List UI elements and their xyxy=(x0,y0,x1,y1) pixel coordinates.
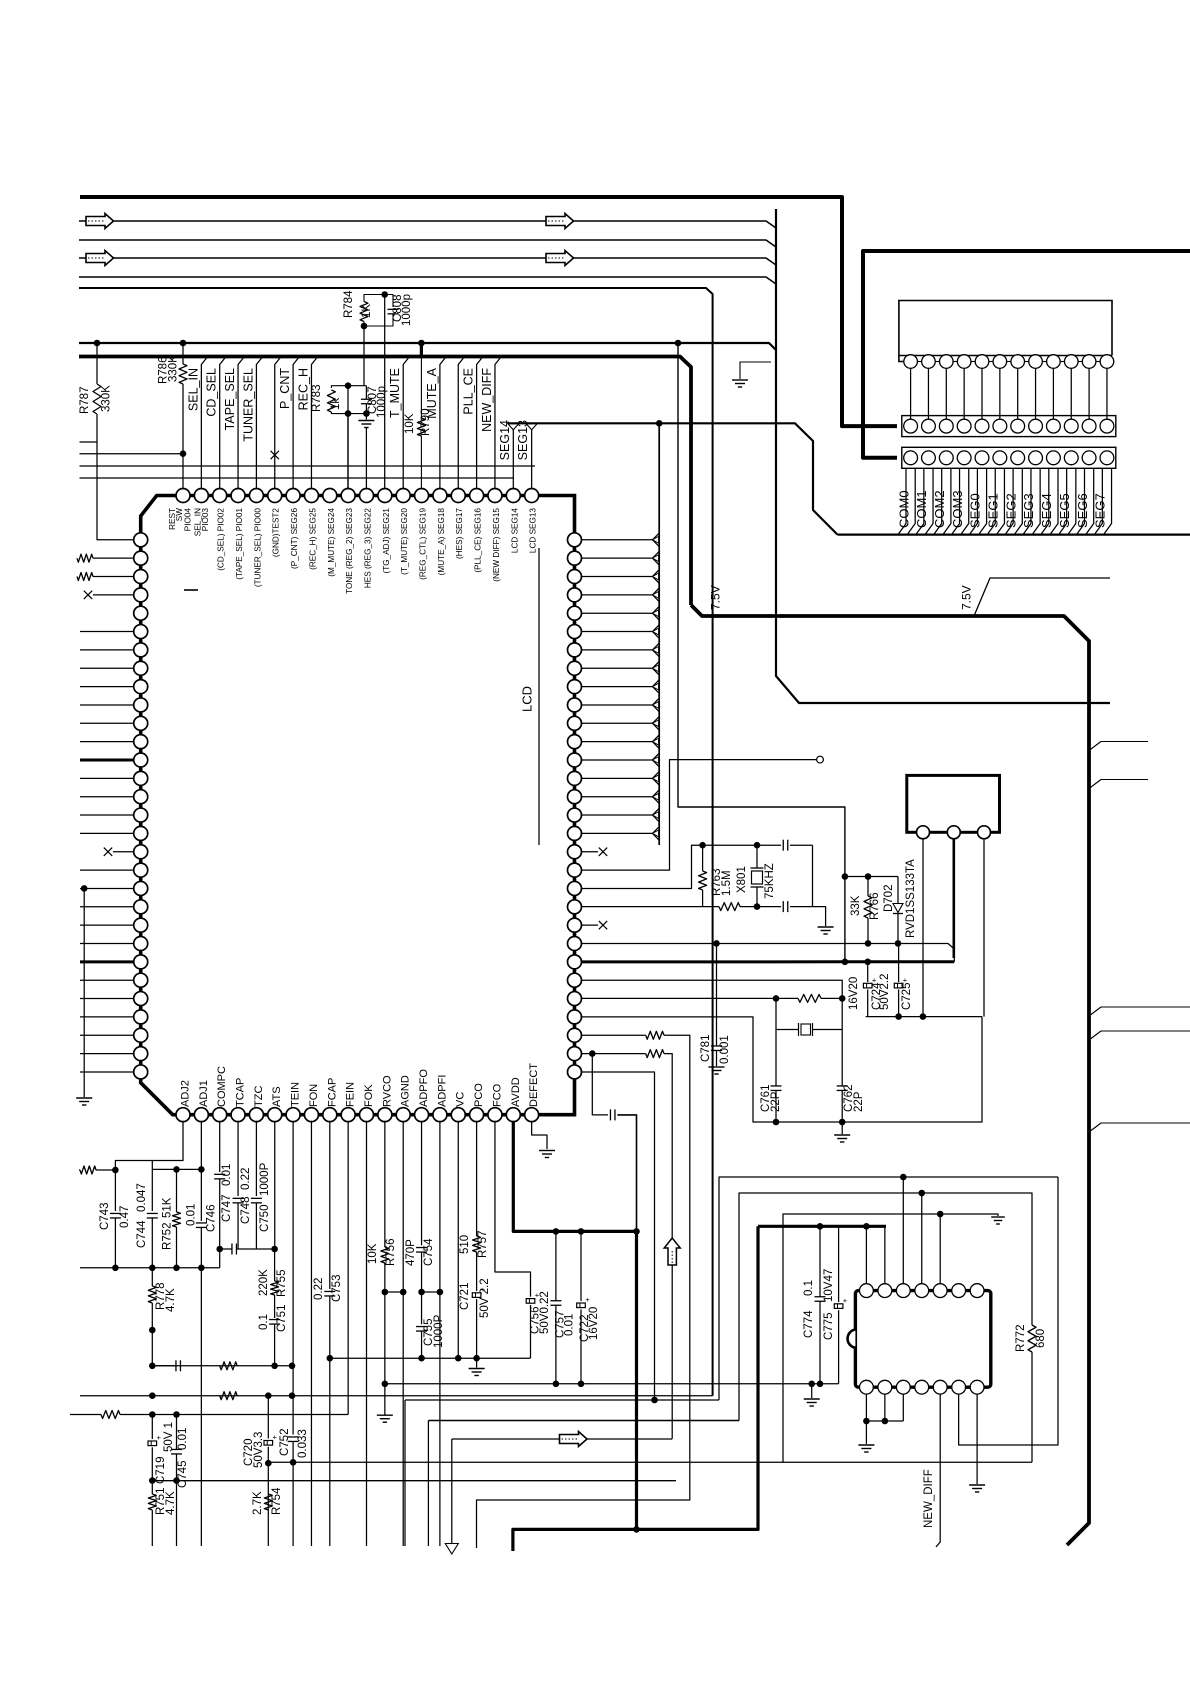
up arrow on x672.2 xyxy=(664,1238,680,1265)
DIP pin wires up xyxy=(865,1226,867,1284)
svg-text:SEG0: SEG0 xyxy=(968,493,983,528)
svg-text:0.01: 0.01 xyxy=(221,1164,233,1186)
svg-text:+: + xyxy=(157,1433,162,1442)
svg-text:R783: R783 xyxy=(311,385,323,413)
svg-text:50V0.22: 50V0.22 xyxy=(539,1291,551,1334)
capacitor C725 xyxy=(898,943,900,982)
svg-text:COMPC: COMPC xyxy=(216,1066,228,1107)
wire ADPFI full xyxy=(439,1121,441,1546)
svg-text:C746: C746 xyxy=(206,1205,218,1233)
LCD bracket line xyxy=(538,548,540,845)
vertical bus x776 xyxy=(776,209,1110,703)
svg-text:1.5M: 1.5M xyxy=(721,870,733,896)
rail 1365.8 xyxy=(152,1365,292,1367)
svg-text:ADJ1: ADJ1 xyxy=(198,1080,210,1107)
svg-text:51K: 51K xyxy=(162,1197,174,1218)
svg-text:4.7K: 4.7K xyxy=(165,1288,177,1312)
resistor R787 330K xyxy=(94,340,101,347)
svg-text:0.033: 0.033 xyxy=(297,1429,309,1458)
svg-text:680: 680 xyxy=(1035,1329,1047,1348)
svg-text:DEFECT: DEFECT xyxy=(528,1063,540,1107)
wire FOK full xyxy=(366,1121,368,1546)
svg-text:10K: 10K xyxy=(404,413,416,434)
wire TEIN with C752 xyxy=(292,1121,294,1435)
comparator IC body xyxy=(855,1291,990,1388)
bus wire 4 xyxy=(79,277,776,284)
SEG13/14 wire to LCD connector xyxy=(508,423,838,534)
svg-text:PLL_CE: PLL_CE xyxy=(462,368,476,415)
svg-text:(HES) SEG17: (HES) SEG17 xyxy=(455,508,464,559)
T_MUTE flag walls xyxy=(403,357,409,490)
capacitor C807 xyxy=(365,386,367,399)
LCD glass box xyxy=(899,301,1112,362)
resistor R783 1k xyxy=(331,386,366,388)
capacitor C756 wire from FCO xyxy=(495,1121,531,1297)
svg-text:(T_MUTE) SEG20: (T_MUTE) SEG20 xyxy=(400,508,409,575)
svg-text:C750: C750 xyxy=(259,1205,271,1233)
svg-text:HES (REG_3) SEG22: HES (REG_3) SEG22 xyxy=(363,508,372,589)
rail 1420 xyxy=(428,1420,739,1422)
svg-text:T_MUTE: T_MUTE xyxy=(388,368,402,418)
svg-text:NEW_DIFF: NEW_DIFF xyxy=(480,368,494,432)
svg-text:SEL_IN: SEL_IN xyxy=(186,368,200,411)
capacitor C722 xyxy=(580,1231,582,1301)
X no-connect left pin18 xyxy=(104,848,112,856)
wire COMPC with C747 xyxy=(219,1121,221,1172)
LCD label channel base line xyxy=(838,533,1190,535)
svg-text:R755: R755 xyxy=(276,1270,288,1298)
rail 1358.2 xyxy=(330,1357,531,1359)
svg-text:C751: C751 xyxy=(276,1305,288,1333)
right pin stubs with bus triangles xyxy=(581,539,653,541)
osc2 ground xyxy=(841,1122,843,1134)
svg-text:50V2.2: 50V2.2 xyxy=(879,974,891,1010)
end triangle xyxy=(445,1544,458,1555)
svg-text:SEG4: SEG4 xyxy=(1039,493,1054,528)
capacitor C719 xyxy=(151,1415,153,1440)
resistor R766 33K xyxy=(867,877,869,897)
osc right link and ground xyxy=(812,845,814,906)
svg-text:C754: C754 xyxy=(423,1238,435,1266)
svg-text:0.01: 0.01 xyxy=(564,1314,576,1336)
rail 1462 xyxy=(268,1461,1032,1463)
capacitor C761 xyxy=(775,998,777,1086)
resistor R755 220K xyxy=(274,1249,276,1281)
svg-text:COM1: COM1 xyxy=(914,490,929,528)
svg-text:C774: C774 xyxy=(803,1310,815,1338)
LCD segment bus vertical xyxy=(658,423,660,845)
svg-text:RVD1SS133TA: RVD1SS133TA xyxy=(905,859,917,938)
left pin stubs with resistors (pins 2,3) xyxy=(77,554,93,562)
rail 1483 xyxy=(152,1480,676,1482)
link 1249 with series cap xyxy=(220,1248,232,1250)
svg-text:1000p: 1000p xyxy=(376,386,388,418)
svg-text:ADPFO: ADPFO xyxy=(418,1069,430,1107)
svg-text:PIO03: PIO03 xyxy=(201,508,210,532)
wire pin30 down to 1400 rail xyxy=(581,1072,655,1400)
rail 1395.7 xyxy=(80,1395,713,1397)
svg-text:C744: C744 xyxy=(136,1220,148,1248)
svg-text:R757: R757 xyxy=(477,1231,489,1259)
thick rail 1226 xyxy=(758,1225,886,1228)
resistor R786 330K xyxy=(180,340,187,347)
cap bottom rail xyxy=(866,1016,982,1018)
svg-text:FEIN: FEIN xyxy=(345,1082,357,1107)
svg-text:TZC: TZC xyxy=(253,1086,265,1107)
svg-text:TAPE_SEL: TAPE_SEL xyxy=(223,368,237,430)
svg-text:SEG3: SEG3 xyxy=(1021,493,1036,528)
svg-text:0.47: 0.47 xyxy=(119,1206,131,1228)
svg-text:7.5V: 7.5V xyxy=(959,585,973,610)
thick power rail A (top) xyxy=(80,197,897,426)
left entry resistor xyxy=(79,1169,80,1171)
svg-text:+: + xyxy=(843,1296,848,1305)
svg-text:10K: 10K xyxy=(367,1243,379,1264)
rail 1384 xyxy=(385,1383,839,1385)
connector row 2 xyxy=(902,447,1116,468)
svg-text:P_CNT: P_CNT xyxy=(278,368,292,409)
svg-text:(TAPE_SEL) PIO01: (TAPE_SEL) PIO01 xyxy=(235,508,244,580)
wire pin29 with resistor, down to arrow rail xyxy=(581,1053,646,1055)
svg-text:D702: D702 xyxy=(883,885,895,913)
wire TZC with C750 xyxy=(255,1121,257,1196)
svg-text:C745: C745 xyxy=(177,1461,189,1489)
svg-text:1k: 1k xyxy=(330,398,342,410)
svg-text:(NEW DIFF) SEG15: (NEW DIFF) SEG15 xyxy=(492,508,501,582)
svg-text:0.1: 0.1 xyxy=(258,1314,270,1330)
ground branch from left pin20 xyxy=(81,885,88,892)
right edge branch stubs xyxy=(1089,742,1148,751)
svg-text:C748: C748 xyxy=(240,1197,252,1225)
sub rail 1169 xyxy=(151,1161,153,1170)
svg-text:PIO04: PIO04 xyxy=(183,508,192,532)
7.5V rail (thick) xyxy=(79,357,691,606)
LCD glass to connector wires xyxy=(910,368,912,419)
bus wire 2 xyxy=(79,240,776,247)
X no-connect left pin4 xyxy=(84,591,92,599)
rail 1267.8 xyxy=(80,1267,220,1269)
capacitor C744 xyxy=(151,1169,153,1211)
svg-text:ADPFI: ADPFI xyxy=(436,1075,448,1107)
svg-text:50V 1: 50V 1 xyxy=(163,1422,175,1452)
svg-text:1000P: 1000P xyxy=(259,1162,271,1196)
thick vertical x636 xyxy=(635,1231,638,1529)
wire SEL_IN left xyxy=(80,453,184,455)
node R784/C808 xyxy=(381,291,388,298)
svg-text:COM3: COM3 xyxy=(950,490,965,528)
svg-text:0.22: 0.22 xyxy=(313,1278,325,1300)
svg-text:ADJ2: ADJ2 xyxy=(179,1080,191,1107)
thick power rail B xyxy=(863,251,1190,458)
wire ADJ2 jog left xyxy=(115,1121,183,1170)
svg-text:FOK: FOK xyxy=(363,1084,375,1107)
wire FCAP with C753 xyxy=(329,1121,331,1289)
capacitor C751 xyxy=(269,1319,280,1321)
IC bottom pins (ADJ2..DEFECT) xyxy=(176,1108,190,1122)
svg-text:(PLL_CE) SEG16: (PLL_CE) SEG16 xyxy=(474,508,483,573)
svg-text:SEG5: SEG5 xyxy=(1057,493,1072,528)
crystal X801 75KHZ xyxy=(756,845,758,868)
svg-text:(TG_ADJ) SEG21: (TG_ADJ) SEG21 xyxy=(382,508,391,574)
svg-text:R766: R766 xyxy=(869,893,881,921)
wire AGND full xyxy=(402,1121,404,1546)
wire ATS down xyxy=(274,1121,276,1249)
wire pin23 line 943 xyxy=(581,944,955,962)
svg-text:RVCO: RVCO xyxy=(381,1075,393,1107)
thick analog rail from pin24 xyxy=(581,960,845,963)
rail 1384 ground xyxy=(811,1384,813,1398)
signal flag channels from 7.5V rail xyxy=(201,357,207,490)
capacitor C745 xyxy=(176,1415,178,1450)
MCU IC body (100-pin QFP) xyxy=(141,496,575,1115)
svg-text:VC: VC xyxy=(455,1092,467,1107)
svg-text:1000P: 1000P xyxy=(433,1314,445,1348)
X stub right pin22 xyxy=(581,924,598,926)
bus wire 3 with flow arrows xyxy=(79,258,776,265)
svg-text:+: + xyxy=(273,1433,278,1442)
svg-text:+: + xyxy=(585,1295,590,1304)
wire x678 down to thick rail xyxy=(675,340,682,347)
svg-text:SEG6: SEG6 xyxy=(1075,493,1090,528)
svg-text:X801: X801 xyxy=(736,866,748,893)
svg-text:C781: C781 xyxy=(700,1035,712,1063)
svg-text:10V47: 10V47 xyxy=(823,1269,835,1302)
svg-text:FCO: FCO xyxy=(491,1083,503,1107)
cap on 592 branch xyxy=(592,1054,608,1115)
svg-text:C743: C743 xyxy=(99,1203,111,1231)
pin 1 index mark xyxy=(184,589,198,591)
svg-text:4.7K: 4.7K xyxy=(165,1491,177,1515)
svg-text:REC_H: REC_H xyxy=(296,368,310,410)
capacitor C746 xyxy=(200,1169,202,1221)
capacitor C743 xyxy=(114,1170,116,1211)
svg-text:COM0: COM0 xyxy=(896,490,911,528)
IC left pins xyxy=(134,533,148,547)
ground near bus xyxy=(740,362,771,379)
svg-text:R772: R772 xyxy=(1015,1325,1027,1353)
resistor R784 xyxy=(364,295,385,302)
wire FEIN xyxy=(347,1121,349,1415)
svg-text:0.1: 0.1 xyxy=(803,1280,815,1296)
wire TCAP with C748 xyxy=(237,1121,239,1196)
wire pin28 with resistor, down to 1500 rail xyxy=(581,1034,646,1036)
resistor R772 680 xyxy=(1028,1325,1036,1352)
capacitor C781 xyxy=(716,943,718,1046)
svg-text:C747: C747 xyxy=(221,1195,233,1223)
svg-text:330K: 330K xyxy=(101,385,113,412)
wire FON full xyxy=(310,1121,312,1546)
svg-text:SEG2: SEG2 xyxy=(1003,493,1018,528)
thick bottom rail 1529 xyxy=(513,1226,758,1551)
capacitor C721 xyxy=(472,1293,481,1298)
R756 link to AGND line xyxy=(385,1291,403,1293)
wire R784 bottom down xyxy=(363,326,365,386)
svg-text:R756: R756 xyxy=(385,1239,397,1267)
svg-text:(REC_H) SEG25: (REC_H) SEG25 xyxy=(308,508,317,570)
svg-text:AGND: AGND xyxy=(400,1075,412,1107)
svg-text:COM2: COM2 xyxy=(932,490,947,528)
svg-text:330K: 330K xyxy=(168,355,180,382)
svg-text:R784: R784 xyxy=(343,290,355,318)
svg-text:(MUTE_A) SEG18: (MUTE_A) SEG18 xyxy=(437,508,446,576)
capacitor C808 xyxy=(385,295,393,308)
left pin long wires xyxy=(80,631,135,633)
svg-text:TONE (REG_2) SEG23: TONE (REG_2) SEG23 xyxy=(345,508,354,594)
svg-text:(GND)TEST2: (GND)TEST2 xyxy=(272,508,281,558)
svg-text:7.5V: 7.5V xyxy=(708,585,722,610)
wire pin26 osc2 top rail xyxy=(581,997,776,999)
ground below C721 xyxy=(476,1358,478,1367)
no-connect open circle xyxy=(817,756,824,763)
rail 1193 xyxy=(739,1193,1032,1421)
svg-text:C719: C719 xyxy=(155,1457,167,1485)
diode D702 xyxy=(897,877,899,904)
svg-text:C753: C753 xyxy=(331,1275,343,1303)
svg-text:LCD SEG14: LCD SEG14 xyxy=(510,508,519,553)
svg-text:LCD SEG13: LCD SEG13 xyxy=(529,508,538,553)
svg-text:TEIN: TEIN xyxy=(290,1082,302,1107)
svg-text:0.047: 0.047 xyxy=(136,1183,148,1212)
wire pin10 through rails xyxy=(347,386,349,490)
svg-text:FON: FON xyxy=(308,1084,320,1107)
IC right pins xyxy=(568,533,582,547)
DIP pin wires down xyxy=(866,1394,903,1421)
C720 R754 chain xyxy=(267,1396,269,1439)
svg-text:C725: C725 xyxy=(901,983,913,1011)
X stub right pin18 xyxy=(581,851,598,853)
svg-text:220K: 220K xyxy=(258,1269,270,1296)
DIP bottom pins xyxy=(860,1380,874,1394)
svg-text:50V 2.2: 50V 2.2 xyxy=(479,1278,491,1318)
connector row 1 xyxy=(902,416,1116,437)
svg-text:TCAP: TCAP xyxy=(235,1078,247,1107)
resistor R752 51K xyxy=(176,1169,178,1212)
svg-text:22P: 22P xyxy=(853,1091,865,1112)
svg-text:(REG_CTL) SEG19: (REG_CTL) SEG19 xyxy=(419,508,428,580)
DIP top pins xyxy=(860,1284,874,1298)
junction dots R783 circuit xyxy=(345,382,352,389)
rail 1400 xyxy=(405,1399,719,1401)
resistor R778 4.7K xyxy=(148,1286,156,1303)
svg-text:1K: 1K xyxy=(361,304,373,318)
7.5V branch right xyxy=(974,578,1110,616)
svg-text:(CD_SEL) PIO02: (CD_SEL) PIO02 xyxy=(217,508,226,571)
rail 1414.5 with resistor xyxy=(70,1414,101,1416)
svg-text:R752: R752 xyxy=(162,1223,174,1251)
bus wire 5 (to C-network rail) xyxy=(79,288,713,1396)
svg-text:FCAP: FCAP xyxy=(326,1078,338,1107)
resistor R756 10K xyxy=(384,1121,386,1247)
resistor R751 4.7K xyxy=(148,1494,156,1510)
DIP pin6 wire xyxy=(959,1177,1058,1445)
short wire left 442 xyxy=(80,441,98,443)
svg-text:R790: R790 xyxy=(420,409,432,437)
svg-text:22P: 22P xyxy=(770,1091,782,1112)
NEW_DIFF wire xyxy=(936,1394,940,1547)
DEFECT ground xyxy=(532,1121,547,1149)
svg-text:33K: 33K xyxy=(850,895,862,916)
capacitor C757 xyxy=(555,1231,557,1300)
right pin19 to open circle xyxy=(581,760,817,871)
capacitor C775 xyxy=(838,1226,840,1302)
svg-text:0.001: 0.001 xyxy=(719,1035,731,1064)
osc top rail xyxy=(703,844,781,846)
svg-text:NEW_DIFF: NEW_DIFF xyxy=(923,1469,935,1528)
svg-text:2.7K: 2.7K xyxy=(252,1491,264,1515)
C754 link to ADPFI xyxy=(422,1291,440,1293)
svg-text:SEG1: SEG1 xyxy=(986,493,1001,528)
capacitor C762 xyxy=(841,1030,843,1087)
svg-text:0.01: 0.01 xyxy=(186,1204,198,1226)
X no-connect on TEST2 xyxy=(271,451,279,459)
wire VC xyxy=(457,1121,459,1359)
wire 876 line xyxy=(845,876,898,878)
svg-text:SEG7: SEG7 xyxy=(1093,493,1108,528)
resistor R763 1.5M xyxy=(702,845,704,871)
svg-text:C752: C752 xyxy=(279,1429,291,1457)
thick AVDD rail xyxy=(513,1121,636,1232)
capacitor C755 1000P xyxy=(421,1292,423,1324)
wire pin20 to osc xyxy=(581,845,703,888)
IC top pins (REST..SEG13) xyxy=(176,489,190,503)
svg-text:LCD: LCD xyxy=(520,686,535,712)
svg-text:ATS: ATS xyxy=(271,1086,283,1107)
svg-text:50V3.3: 50V3.3 xyxy=(253,1432,265,1468)
svg-text:R787: R787 xyxy=(79,387,91,415)
svg-text:R754: R754 xyxy=(271,1487,283,1515)
svg-text:1000p: 1000p xyxy=(401,294,413,326)
connector box BOX1 xyxy=(907,775,1000,832)
svg-text:470P: 470P xyxy=(405,1239,417,1266)
wire pin25 to osc2 right node xyxy=(581,980,843,1029)
svg-text:C721: C721 xyxy=(459,1283,471,1311)
wire ADJ1 full xyxy=(200,1121,202,1170)
node line from R784 down to pin12 xyxy=(384,295,386,490)
svg-text:0.01: 0.01 xyxy=(177,1428,189,1450)
svg-text:(TUNER_SEL) PIO00: (TUNER_SEL) PIO00 xyxy=(253,508,262,588)
label channels xyxy=(898,468,906,534)
svg-text:AVDD: AVDD xyxy=(510,1077,522,1107)
rail 1177 xyxy=(719,1177,1058,1400)
DIP pin7 ground xyxy=(976,1394,978,1484)
resistor R757 510 xyxy=(476,1121,478,1236)
svg-text:75KHZ: 75KHZ xyxy=(764,863,776,899)
resonator xyxy=(776,1029,799,1031)
bus wire 1 with flow arrows xyxy=(79,221,776,228)
svg-text:C775: C775 xyxy=(823,1313,835,1341)
svg-text:(P_CNT) SEG26: (P_CNT) SEG26 xyxy=(290,508,299,569)
MUTE_A flag wall xyxy=(440,357,446,490)
capacitor C774 xyxy=(819,1226,821,1296)
ground below DIP pin1 xyxy=(865,1421,867,1444)
svg-text:TUNER_SEL: TUNER_SEL xyxy=(241,368,255,442)
svg-text:PCO: PCO xyxy=(473,1083,485,1107)
wire level 343 xyxy=(79,343,776,350)
rail 1214 with ground xyxy=(783,1214,998,1462)
rail 1480.6 xyxy=(152,1480,676,1482)
osc bottom rail with series resistor xyxy=(581,906,703,908)
resistor R790 10K xyxy=(418,340,425,347)
ground below C807 xyxy=(365,414,367,420)
svg-text:16V20: 16V20 xyxy=(848,977,860,1010)
osc2 frame wire pin26 xyxy=(581,1017,982,1122)
long wires 466/478 xyxy=(80,465,536,467)
capacitor C754 470P xyxy=(421,1121,423,1246)
LCD glass pin chain xyxy=(904,355,918,369)
box pin wires xyxy=(922,839,924,1017)
rail 1439 with flow arrow xyxy=(452,1438,672,1440)
svg-text:(M_MUTE) SEG24: (M_MUTE) SEG24 xyxy=(327,508,336,577)
